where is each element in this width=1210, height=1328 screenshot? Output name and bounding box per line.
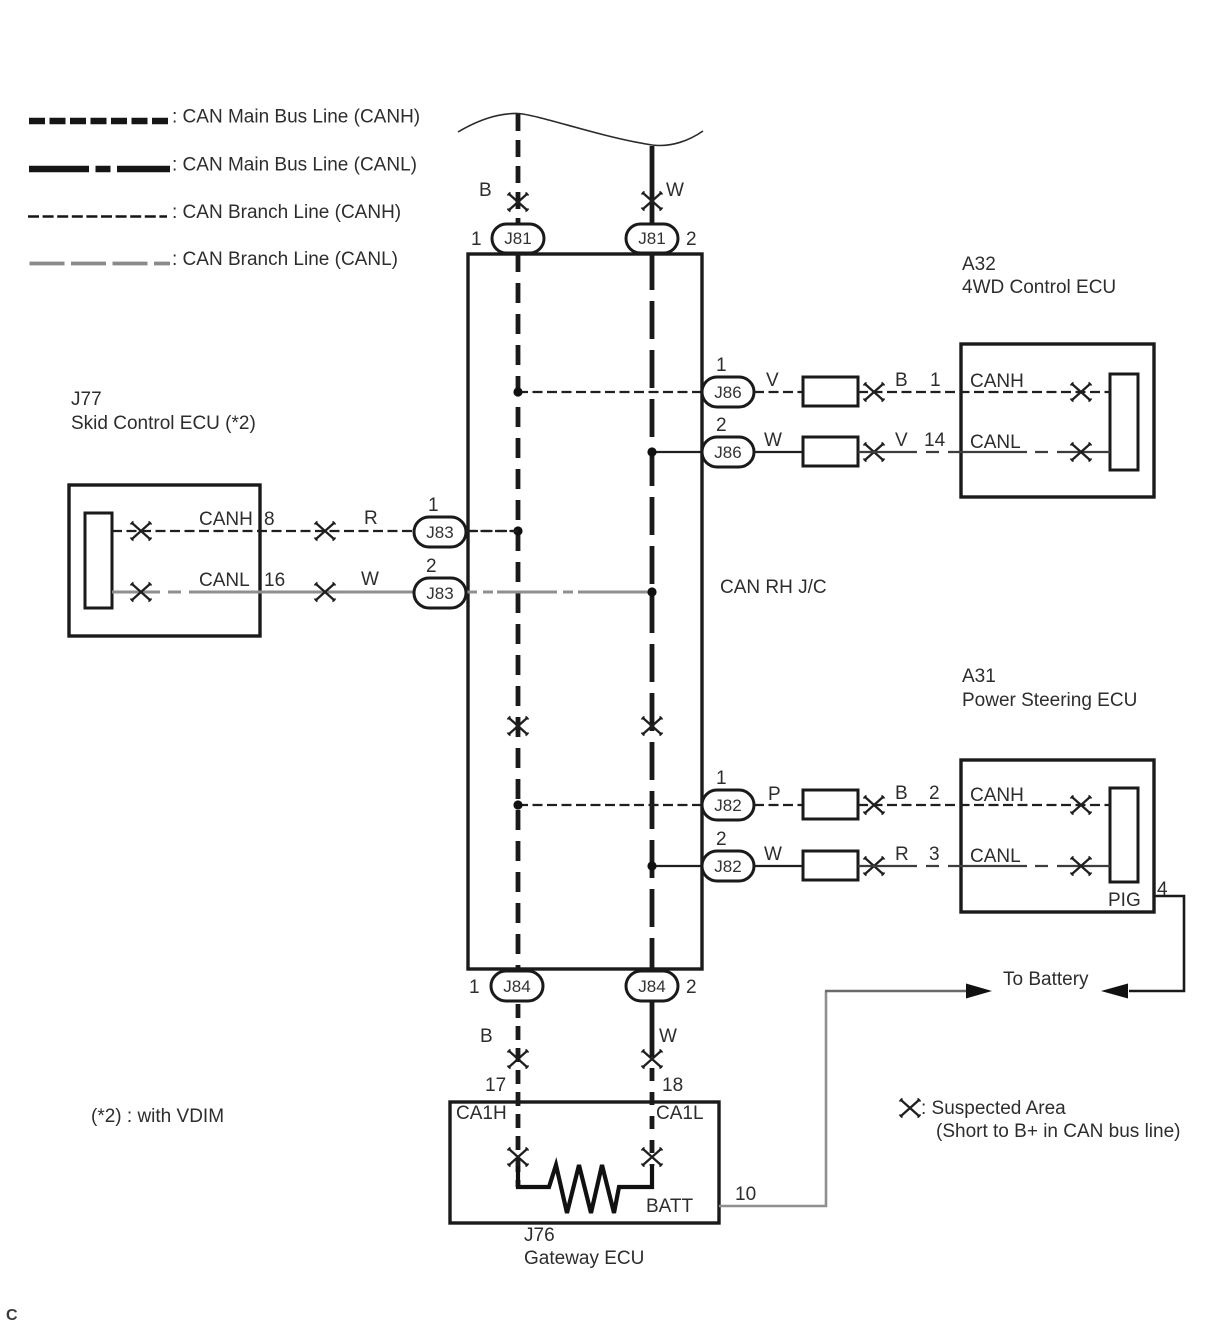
- svg-text:: Suspected Area: : Suspected Area: [921, 1098, 1066, 1119]
- connector J81 pin 2: [626, 224, 678, 253]
- svg-text:: CAN Main Bus Line (CANH): : CAN Main Bus Line (CANH): [172, 107, 420, 128]
- svg-text:Gateway ECU: Gateway ECU: [524, 1248, 644, 1269]
- branch wire J86-2 CANL inside J/C: [652, 451, 702, 453]
- wire CANH main bus top segment: [516, 114, 521, 224]
- terminating resistor in J76: [518, 1165, 652, 1213]
- svg-text:J86: J86: [714, 443, 741, 462]
- noise filter block J82-1: [803, 790, 858, 819]
- svg-text:1: 1: [469, 977, 480, 998]
- svg-text:4WD Control ECU: 4WD Control ECU: [962, 277, 1116, 298]
- ECU box A32: [961, 344, 1154, 497]
- suspected area X on J77 CANH inside: [131, 522, 152, 541]
- connector J81 pin 1: [492, 224, 544, 253]
- wire CANH main bus inside J/C: [516, 252, 521, 971]
- svg-text:J76: J76: [524, 1225, 555, 1246]
- suspected area X on CANH mid: [508, 717, 529, 736]
- suspected area X after filter CANL: [864, 443, 885, 462]
- svg-text:To Battery: To Battery: [1003, 969, 1089, 990]
- svg-text:CANL: CANL: [970, 432, 1021, 453]
- svg-text:16: 16: [264, 570, 285, 591]
- suspected area X after filter CANH: [864, 383, 885, 402]
- legend CANL main bus sample line: [29, 166, 170, 172]
- svg-text:J82: J82: [714, 796, 741, 815]
- svg-text:J81: J81: [504, 229, 531, 248]
- svg-text:Power Steering ECU: Power Steering ECU: [962, 690, 1137, 711]
- svg-text:2: 2: [716, 829, 727, 850]
- suspected area X on CANH bottom: [508, 1050, 529, 1069]
- ECU box A31: [961, 760, 1154, 912]
- svg-text:J83: J83: [426, 584, 453, 603]
- svg-text:CA1H: CA1H: [456, 1103, 507, 1124]
- branch wire J86-2 to filter: [754, 451, 803, 453]
- svg-text:1: 1: [930, 370, 941, 391]
- svg-text:14: 14: [924, 430, 946, 451]
- svg-text:B: B: [895, 783, 908, 804]
- svg-text:A31: A31: [962, 666, 996, 687]
- branch wire J86-1 to filter: [754, 391, 803, 393]
- suspected area X on CANH top: [508, 193, 529, 212]
- suspected area X on CANL mid: [642, 717, 663, 736]
- node CAN RH J/C junction block box: [468, 254, 702, 969]
- suspected area X on CA1H inside J76: [508, 1148, 529, 1167]
- legend CANH main bus sample line: [29, 118, 169, 124]
- suspected area X inside A32 CANH: [1071, 383, 1092, 402]
- svg-text:8: 8: [264, 509, 275, 530]
- branch wire CANH into A31: [858, 804, 1110, 806]
- branch wire J82-2 to filter: [754, 865, 803, 867]
- wire harness wave (top): [458, 113, 703, 145]
- branch wire CANL into A32 (dark gray): [858, 451, 1110, 453]
- junction node on CANL for J86-2: [647, 447, 656, 456]
- svg-text:: CAN Main Bus Line (CANL): : CAN Main Bus Line (CANL): [172, 155, 417, 176]
- svg-text:2: 2: [716, 415, 727, 436]
- svg-text:J83: J83: [426, 523, 453, 542]
- svg-text:P: P: [768, 784, 781, 805]
- svg-text:R: R: [364, 508, 378, 529]
- junction node on CANL for J82-2: [647, 861, 656, 870]
- svg-text:1: 1: [716, 768, 727, 789]
- svg-text:: CAN Branch Line (CANH): : CAN Branch Line (CANH): [172, 202, 401, 223]
- wire CANH main bus below J84: [516, 1004, 521, 1187]
- svg-text:(*2) : with VDIM: (*2) : with VDIM: [91, 1106, 224, 1127]
- svg-text:1: 1: [716, 355, 727, 376]
- arrow to battery right: [1101, 984, 1128, 999]
- legend CANH branch sample line: [28, 215, 167, 218]
- svg-text:W: W: [764, 430, 782, 451]
- suspected area X after filter CANL A31: [864, 857, 885, 876]
- svg-text:PIG: PIG: [1108, 890, 1141, 911]
- ECU box J77 Skid Control: [69, 485, 260, 636]
- svg-text:1: 1: [428, 495, 439, 516]
- connector J84 pin 2: [626, 971, 678, 1001]
- svg-text:J84: J84: [638, 977, 665, 996]
- wire CANL main bus below J84: [650, 1001, 655, 1044]
- ECU box J76 Gateway: [450, 1102, 719, 1223]
- svg-text:2: 2: [426, 556, 437, 577]
- svg-text:: CAN Branch Line (CANL): : CAN Branch Line (CANL): [172, 249, 398, 270]
- svg-text:CANL: CANL: [970, 846, 1021, 867]
- suspected area X on CANL top: [642, 192, 663, 211]
- connector J82 pin 1: [702, 790, 754, 820]
- branch wire J82-1 to filter: [754, 804, 803, 806]
- svg-text:B: B: [480, 1026, 493, 1047]
- svg-text:17: 17: [485, 1075, 506, 1096]
- svg-text:(Short to B+ in CAN bus line): (Short to B+ in CAN bus line): [936, 1121, 1180, 1142]
- svg-text:10: 10: [735, 1184, 756, 1205]
- suspected area X inside A32 CANL: [1071, 443, 1092, 462]
- suspected area X on CA1L inside J76: [642, 1148, 663, 1167]
- connector J86 pin 2: [702, 437, 754, 467]
- svg-text:BATT: BATT: [646, 1196, 694, 1217]
- svg-text:18: 18: [662, 1075, 683, 1096]
- connector J84 pin 1: [491, 971, 543, 1001]
- wire BATT to battery (gray): [719, 991, 826, 1206]
- branch wire J83-1 to J/C: [466, 530, 518, 532]
- connector block inside A31: [1110, 788, 1138, 882]
- noise filter block J86-1: [803, 377, 858, 406]
- svg-text:W: W: [666, 180, 684, 201]
- connector J82 pin 2: [702, 851, 754, 881]
- svg-text:CANH: CANH: [199, 509, 253, 530]
- svg-text:J84: J84: [503, 977, 530, 996]
- svg-text:CA1L: CA1L: [656, 1103, 704, 1124]
- suspected area X inside A31 CANH: [1071, 796, 1092, 815]
- svg-text:CANH: CANH: [970, 371, 1024, 392]
- branch wire J83-2 CANL inside J/C: [467, 591, 648, 594]
- suspected area legend X: [900, 1099, 921, 1118]
- branch wire J77 CANL row (gray): [112, 591, 414, 594]
- svg-text:W: W: [659, 1026, 677, 1047]
- svg-text:C: C: [6, 1307, 18, 1324]
- svg-text:3: 3: [929, 844, 940, 865]
- svg-text:2: 2: [686, 977, 697, 998]
- svg-text:J86: J86: [714, 383, 741, 402]
- suspected area X after filter CANH A31: [864, 796, 885, 815]
- branch wire J82-2 CANL inside J/C: [652, 865, 702, 867]
- suspected area X on CANL bottom: [642, 1050, 663, 1069]
- branch wire CANL into A31 (dark gray): [858, 865, 1110, 867]
- svg-text:2: 2: [686, 229, 697, 250]
- wire PIG pin4 to battery: [1129, 896, 1184, 991]
- suspected area X inside A31 CANL: [1071, 857, 1092, 876]
- junction node on CANH for J83-1: [513, 526, 522, 535]
- suspected area X on J77 CANH outside: [315, 522, 336, 541]
- branch wire J86-1 CANH inside J/C: [518, 391, 702, 393]
- connector block inside A32: [1110, 374, 1138, 470]
- svg-text:J77: J77: [71, 389, 102, 410]
- legend CANL branch sample line: [30, 262, 171, 266]
- svg-text:J82: J82: [714, 857, 741, 876]
- connector J83 pin 1: [414, 517, 466, 547]
- svg-text:2: 2: [929, 783, 940, 804]
- svg-text:J81: J81: [638, 229, 665, 248]
- wire CANL main bus top segment: [650, 146, 655, 224]
- svg-text:B: B: [479, 180, 492, 201]
- svg-text:W: W: [361, 569, 379, 590]
- branch wire J82-1 CANH inside J/C: [518, 804, 702, 806]
- junction node on CANL for J83-2: [647, 587, 656, 596]
- svg-text:B: B: [895, 370, 908, 391]
- connector block inside J77: [85, 513, 112, 608]
- svg-text:W: W: [764, 844, 782, 865]
- svg-text:CANH: CANH: [970, 785, 1024, 806]
- svg-text:CAN RH J/C: CAN RH J/C: [720, 577, 827, 598]
- svg-text:1: 1: [471, 229, 482, 250]
- svg-text:4: 4: [1157, 879, 1168, 900]
- wire CANL main bus inside J/C: [650, 252, 655, 971]
- svg-text:CANL: CANL: [199, 570, 250, 591]
- svg-text:R: R: [895, 844, 909, 865]
- connector J83 pin 2: [414, 578, 466, 608]
- branch wire CANH into A32: [858, 391, 1110, 393]
- branch wire J77 CANH row: [112, 530, 414, 532]
- junction node on CANH for J86-1: [513, 387, 522, 396]
- svg-text:Skid Control ECU (*2): Skid Control ECU (*2): [71, 413, 256, 434]
- suspected area X on J77 CANL outside: [315, 583, 336, 602]
- noise filter block J82-2: [803, 851, 858, 880]
- svg-text:A32: A32: [962, 254, 996, 275]
- noise filter block J86-2: [803, 437, 858, 466]
- junction node on CANH for J82-1: [513, 800, 522, 809]
- svg-text:V: V: [895, 430, 908, 451]
- connector J86 pin 1: [702, 377, 754, 407]
- svg-text:V: V: [766, 370, 779, 391]
- arrow to battery left: [966, 984, 992, 999]
- suspected area X on J77 CANL inside: [131, 583, 152, 602]
- branch wire J83-1 CANH inside J/C: [468, 530, 518, 532]
